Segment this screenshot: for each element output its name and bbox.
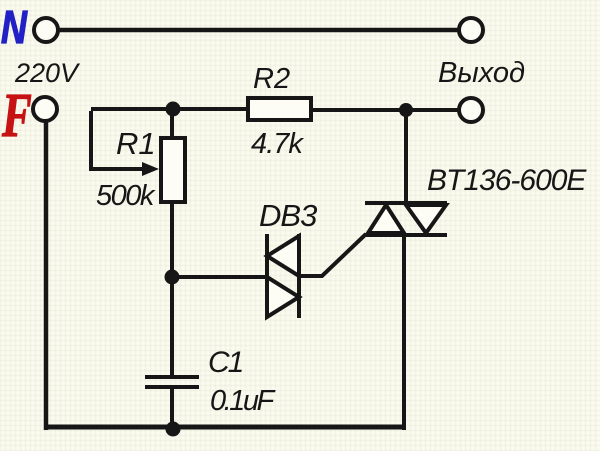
terminal F [33,97,57,121]
resistor R2 [248,98,311,120]
wire top N to output [50,28,466,33]
node B [165,270,180,285]
svg-text:0.1uF: 0.1uF [210,385,276,417]
wire diac to triac gate [299,234,366,276]
wire C1 to node D [170,387,174,430]
svg-text:500k: 500k [96,180,156,212]
terminal output top [459,18,483,42]
node A [166,102,181,117]
node D [166,422,181,437]
wire triac bottom lead [402,235,406,430]
svg-text:R1: R1 [116,126,156,161]
diac DB3 [267,234,299,318]
capacitor C1 [145,377,199,387]
wire node C to triac top [404,104,408,203]
svg-text:F: F [1,81,32,150]
svg-text:R2: R2 [253,63,290,95]
wire R2 to output terminal [311,108,459,112]
wire F down left side [44,121,49,430]
wire node B to diac [172,275,268,279]
terminal output bottom [459,98,483,122]
svg-text:BT136-600E: BT136-600E [427,164,587,197]
svg-text:Выход: Выход [438,57,525,89]
wire node A to R1 top [170,107,174,138]
triac U1 BT136-600E [365,203,447,235]
wire R1 bottom to node B [170,202,174,280]
svg-text:N: N [1,2,28,53]
wire node A to R2 [91,107,250,111]
svg-text:4.7k: 4.7k [251,128,304,160]
terminal N [34,18,58,42]
resistor R1 [161,138,185,202]
svg-text:DB3: DB3 [259,198,317,233]
arrow wiper R1 [142,162,159,176]
wire bottom [44,425,406,430]
node C [399,103,413,117]
wire node B to C1 [170,277,174,377]
svg-text:C1: C1 [208,346,243,379]
wire wiper loop R1 [91,111,146,169]
